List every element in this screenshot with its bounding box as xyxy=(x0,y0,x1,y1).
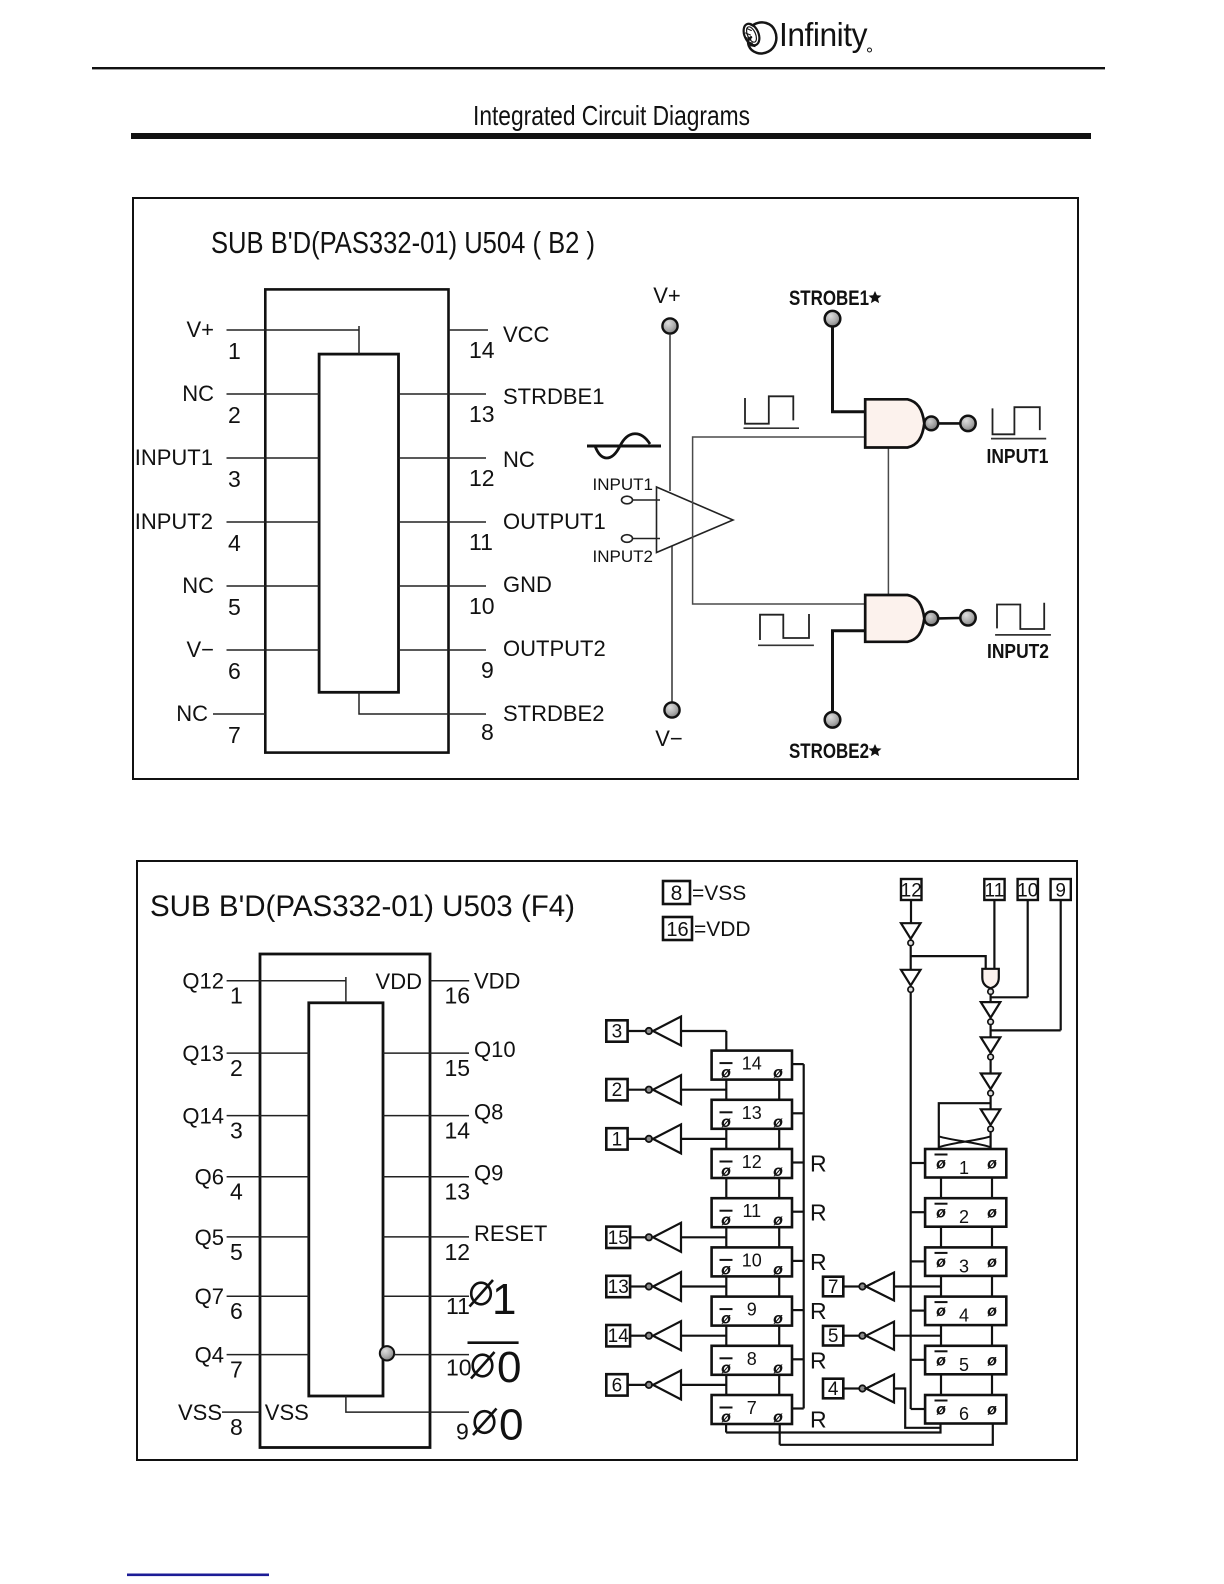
svg-text:12: 12 xyxy=(445,1239,471,1265)
terminal STROBE1 xyxy=(825,311,841,327)
svg-text:2: 2 xyxy=(959,1207,969,1227)
svg-text:10: 10 xyxy=(742,1250,762,1270)
wire loop to bowtie left xyxy=(939,1103,991,1149)
wire link FF14-FF13 a xyxy=(725,1080,727,1100)
svg-text:6: 6 xyxy=(230,1298,243,1324)
svg-text:STRDBE1: STRDBE1 xyxy=(503,384,604,409)
pin 10 wire PHI0bar xyxy=(394,1354,469,1356)
svg-text:14: 14 xyxy=(445,1118,471,1144)
pin label PHI1 xyxy=(470,1275,517,1324)
input sine wave xyxy=(587,434,661,458)
svg-text:STROBE2: STROBE2 xyxy=(789,740,869,763)
logo registered mark xyxy=(868,48,872,52)
op-amp U1 xyxy=(657,487,734,553)
node N2 xyxy=(908,987,914,993)
bowtie gate xyxy=(939,1136,991,1147)
svg-text:13: 13 xyxy=(742,1103,762,1123)
wire branch to pin10 line xyxy=(991,996,1028,998)
gate G3 xyxy=(982,969,999,988)
pin 9 wire OUTPUT2 xyxy=(399,649,487,651)
right FF column xyxy=(925,1149,1006,1424)
svg-text:ø: ø xyxy=(721,1409,731,1426)
svg-text:14: 14 xyxy=(608,1326,630,1347)
G2 output bubble xyxy=(924,612,938,626)
svg-text:ø: ø xyxy=(773,1114,783,1131)
wire pin10 down xyxy=(1027,900,1029,997)
svg-text:Q9: Q9 xyxy=(474,1161,503,1186)
svg-text:R: R xyxy=(810,1249,827,1275)
svg-text:7: 7 xyxy=(828,1277,839,1298)
wire link FF10-FF9 a xyxy=(725,1276,727,1296)
waveform in1 (low-high) xyxy=(745,396,793,423)
node N6 xyxy=(988,1126,994,1132)
boxed pin 12 xyxy=(901,879,922,900)
wire N4 out xyxy=(989,1060,991,1073)
svg-text:R: R xyxy=(810,1298,827,1324)
svg-text:Q8: Q8 xyxy=(474,1100,503,1125)
svg-text:Q14: Q14 xyxy=(182,1104,224,1129)
G2 output terminal xyxy=(960,610,975,625)
svg-text:12: 12 xyxy=(742,1152,762,1172)
NAND gate G2 xyxy=(865,595,924,642)
flip-flop FR1 xyxy=(925,1149,1006,1178)
R stub FF8 xyxy=(792,1358,804,1360)
svg-text:7: 7 xyxy=(747,1398,757,1418)
svg-text:5: 5 xyxy=(230,1239,243,1265)
flip-flop FR6 xyxy=(925,1395,1006,1424)
pin 8 wire STRDBE2 xyxy=(359,692,486,714)
pin 6 wire Q7 xyxy=(227,1295,309,1297)
svg-text:15: 15 xyxy=(608,1228,629,1249)
op-amp input1 terminal xyxy=(622,496,633,504)
svg-text:VDD: VDD xyxy=(474,969,520,994)
svg-text:ø: ø xyxy=(773,1360,783,1377)
wire link FF9-FF8 a xyxy=(725,1326,727,1346)
svg-text:VSS: VSS xyxy=(265,1400,309,1425)
R stub FF14 xyxy=(792,1063,804,1065)
svg-text:9: 9 xyxy=(456,1419,469,1445)
svg-text:Integrated Circuit Diagrams: Integrated Circuit Diagrams xyxy=(473,100,750,131)
wire N6 to bowtie xyxy=(989,1132,991,1149)
svg-text:VCC: VCC xyxy=(503,322,550,347)
op-amp input1 stub xyxy=(633,499,661,501)
R stub FF12 xyxy=(792,1161,804,1163)
svg-text:STRDBE2: STRDBE2 xyxy=(503,701,604,726)
svg-text:ø: ø xyxy=(936,1402,946,1419)
svg-text:R: R xyxy=(810,1151,827,1177)
Infinity logo glyph xyxy=(741,21,777,53)
wire pin9 down xyxy=(1060,900,1062,1030)
STROBE2 star xyxy=(869,744,882,756)
svg-text:11: 11 xyxy=(985,881,1005,902)
svg-text:3: 3 xyxy=(228,466,241,492)
svg-text:6: 6 xyxy=(612,1375,623,1396)
left pin inverters xyxy=(606,1017,726,1400)
pin 11 wire PHI1 xyxy=(383,1295,469,1297)
wire FF7 bottom a xyxy=(725,1424,727,1433)
inverter N1 xyxy=(901,923,921,939)
svg-text:13: 13 xyxy=(469,401,495,427)
clock bus phi-bar xyxy=(910,993,912,1409)
pin 1 wire Q12 xyxy=(227,977,346,1003)
svg-text:13: 13 xyxy=(608,1277,629,1298)
op-amp input2 terminal xyxy=(622,535,633,543)
BOX2 xyxy=(137,861,1077,1460)
waveform out2 (high-low) xyxy=(997,603,1044,629)
svg-text:11: 11 xyxy=(469,529,493,555)
svg-text:ø: ø xyxy=(721,1212,731,1229)
STROBE1 star xyxy=(869,291,882,303)
wire link FF10-FF9 b xyxy=(778,1276,780,1296)
node N5 xyxy=(988,1090,994,1096)
flip-flop FF9 xyxy=(712,1297,792,1328)
pin 13 wire Q9 xyxy=(383,1176,469,1178)
box2 frame xyxy=(137,861,1077,1460)
BOX1 xyxy=(133,198,1078,779)
clock stub FF6 xyxy=(911,1408,925,1410)
header rule xyxy=(92,67,1105,69)
svg-text:ø: ø xyxy=(773,1311,783,1328)
wire link FF11-FF10 b xyxy=(778,1227,780,1247)
svg-text:V+: V+ xyxy=(653,283,681,308)
flip-flop FF10 xyxy=(712,1247,792,1278)
terminal V+ xyxy=(662,318,677,333)
NAND gate G1 xyxy=(865,399,924,447)
svg-text:SUB B'D(PAS332-01) U503 (F4): SUB B'D(PAS332-01) U503 (F4) xyxy=(150,890,575,923)
pin 16 wire VDD xyxy=(430,980,469,982)
output inverter and pin 7 mid xyxy=(823,1273,941,1301)
svg-text:6: 6 xyxy=(959,1404,969,1424)
pin 13 wire STRDBE1 xyxy=(399,393,487,395)
inverter N3 xyxy=(981,1002,1001,1018)
pin 10 wire GND xyxy=(399,585,487,587)
R bus xyxy=(792,1064,827,1432)
clock stub FF2 xyxy=(911,1211,925,1213)
svg-text:Q5: Q5 xyxy=(195,1225,224,1250)
flip-flop FF12 xyxy=(712,1149,792,1180)
wire gate1 to gate2 xyxy=(887,448,889,596)
G1 output bubble xyxy=(924,417,938,431)
pin 4 wire Q6 xyxy=(227,1176,309,1178)
wire link FF12-FF11 b xyxy=(778,1178,780,1198)
wire link FR5-FR6 b xyxy=(991,1374,993,1395)
pin 14 wire VCC xyxy=(449,329,489,331)
wire link FR4-FR5 b xyxy=(991,1325,993,1346)
flip-flop FR4 xyxy=(925,1297,1006,1326)
svg-text:ø: ø xyxy=(987,1205,997,1222)
pin 5 wire Q5 xyxy=(227,1236,309,1238)
flip-flop FR2 xyxy=(925,1198,1006,1227)
wire FF7 bottom b xyxy=(779,1424,781,1445)
svg-text:ø: ø xyxy=(936,1303,946,1320)
svg-text:INPUT1: INPUT1 xyxy=(987,446,1049,468)
pin 7 wire NC xyxy=(213,713,265,715)
svg-text:OUTPUT1: OUTPUT1 xyxy=(503,509,606,534)
svg-text:ø: ø xyxy=(987,1352,997,1369)
pin 4 wire INPUT2 xyxy=(227,521,320,523)
terminal V- xyxy=(664,702,679,717)
wire op-amp outputs loop xyxy=(693,437,866,604)
output inverter and pin 6 xyxy=(606,1370,726,1399)
svg-text:NC: NC xyxy=(182,573,214,598)
R stub FF10 xyxy=(792,1260,804,1262)
svg-text:ø: ø xyxy=(773,1261,783,1278)
svg-text:9: 9 xyxy=(1055,881,1066,902)
svg-text:7: 7 xyxy=(230,1357,243,1383)
pin 9 wire PHI0 xyxy=(346,1396,469,1412)
svg-text:Q10: Q10 xyxy=(474,1037,516,1062)
inverter N4 xyxy=(981,1037,1001,1053)
footer blue line xyxy=(127,1574,269,1577)
R stub FF9 xyxy=(792,1309,804,1311)
svg-text:Infinity: Infinity xyxy=(779,16,868,53)
inverter N2 xyxy=(901,970,921,986)
svg-text:4: 4 xyxy=(828,1379,839,1400)
clock stub FF1 xyxy=(911,1162,925,1164)
flip-flop FF8 xyxy=(712,1346,792,1377)
pin 2 wire Q13 xyxy=(227,1052,309,1054)
wire link FF8-FF7 b xyxy=(778,1375,780,1395)
svg-text:9: 9 xyxy=(481,657,494,683)
wire N1 branch to gate xyxy=(911,956,986,969)
svg-text:4: 4 xyxy=(959,1306,969,1326)
svg-text:4: 4 xyxy=(230,1179,243,1205)
svg-text:=VSS: =VSS xyxy=(692,882,746,905)
wire link FR3-FR4 b xyxy=(991,1276,993,1297)
svg-text:ø: ø xyxy=(936,1352,946,1369)
IC U503 die xyxy=(309,1003,383,1396)
clock stub FF5 xyxy=(911,1359,925,1361)
pin 2 wire NC xyxy=(227,393,320,395)
pin 12 wire RESET xyxy=(383,1236,469,1238)
svg-text:Q6: Q6 xyxy=(195,1165,224,1190)
wire G3 out xyxy=(989,995,991,1002)
R stub FF7 xyxy=(792,1407,804,1409)
svg-text:Q7: Q7 xyxy=(195,1284,224,1309)
svg-text:15: 15 xyxy=(445,1055,471,1081)
svg-text:ø: ø xyxy=(987,1156,997,1173)
boxed pin 10 xyxy=(1018,879,1038,900)
flip-flop FR5 xyxy=(925,1346,1006,1375)
wire branch to pin9 line xyxy=(991,1029,1061,1031)
svg-text:Q12: Q12 xyxy=(182,969,224,994)
svg-text:OUTPUT2: OUTPUT2 xyxy=(503,636,606,661)
box1 frame xyxy=(133,198,1078,779)
pin 8 wire VSS xyxy=(222,1411,260,1413)
flip-flop FF13 xyxy=(712,1100,792,1131)
wire pin12 to inverter xyxy=(910,900,912,923)
G2 output wire xyxy=(939,617,961,620)
svg-text:GND: GND xyxy=(503,572,552,597)
svg-text:1: 1 xyxy=(959,1158,969,1178)
svg-text:14: 14 xyxy=(742,1054,762,1074)
R stub FF13 xyxy=(792,1112,804,1114)
wire link FF13-FF12 a xyxy=(725,1129,727,1149)
svg-text:NC: NC xyxy=(182,381,214,406)
clock stub FF3 xyxy=(911,1260,925,1262)
svg-text:11: 11 xyxy=(446,1293,470,1319)
output inverter and pin 13 xyxy=(606,1272,726,1301)
svg-text:SUB B'D(PAS332-01) U504 ( B2: SUB B'D(PAS332-01) U504 ( B2 ) xyxy=(211,225,595,260)
IC U503 outer package xyxy=(260,954,430,1448)
svg-text:8: 8 xyxy=(671,882,683,905)
inverter N6 xyxy=(981,1109,1001,1125)
svg-text:1: 1 xyxy=(612,1129,623,1150)
svg-text:INPUT2: INPUT2 xyxy=(135,509,213,534)
svg-text:0: 0 xyxy=(497,1343,521,1392)
wire V+ to op-amp xyxy=(669,334,671,491)
waveform out1 baseline xyxy=(991,438,1046,440)
svg-text:10: 10 xyxy=(1017,881,1038,902)
wire STROBE1 to gate1 xyxy=(833,327,867,412)
svg-text:ø: ø xyxy=(987,1254,997,1271)
svg-text:ø: ø xyxy=(936,1205,946,1222)
G1 output wire xyxy=(939,422,961,425)
svg-text:ø: ø xyxy=(721,1163,731,1180)
svg-text:1: 1 xyxy=(228,338,241,364)
svg-text:8: 8 xyxy=(481,719,494,745)
svg-text:NC: NC xyxy=(176,701,208,726)
svg-text:ø: ø xyxy=(773,1212,783,1229)
op-amp input2 stub xyxy=(633,538,661,540)
svg-text:ø: ø xyxy=(987,1303,997,1320)
svg-text:INPUT1: INPUT1 xyxy=(593,475,653,494)
svg-text:STROBE1: STROBE1 xyxy=(789,287,869,310)
wire N5 out xyxy=(989,1097,991,1110)
pin 5 wire NC xyxy=(227,585,320,587)
svg-text:ø: ø xyxy=(773,1065,783,1082)
wire link FR1-FR2 b xyxy=(991,1178,993,1199)
waveform in1 baseline xyxy=(744,427,800,429)
svg-text:5: 5 xyxy=(959,1355,969,1375)
wire STROBE2 to gate2 xyxy=(833,631,867,712)
svg-text:3: 3 xyxy=(230,1118,243,1144)
pin label PHI0bar xyxy=(471,1343,521,1392)
waveform out1 (low-high) xyxy=(993,407,1040,434)
wire op-amp to V- xyxy=(671,545,673,702)
clock stub FF4 xyxy=(911,1309,925,1311)
bottom feedback wires xyxy=(726,1424,993,1445)
svg-text:8: 8 xyxy=(230,1414,243,1440)
R stub FF11 xyxy=(792,1211,804,1213)
flip-flop FF7 xyxy=(712,1395,792,1426)
svg-text:ø: ø xyxy=(773,1163,783,1180)
svg-text:R: R xyxy=(810,1407,827,1433)
svg-text:8: 8 xyxy=(747,1349,757,1369)
boxed pin 11 xyxy=(984,879,1004,900)
title thick rule xyxy=(131,133,1091,139)
pin 11 wire OUTPUT1 xyxy=(399,521,487,523)
pin 7 wire Q4 xyxy=(227,1354,309,1356)
svg-text:10: 10 xyxy=(469,593,495,619)
svg-text:9: 9 xyxy=(747,1300,757,1320)
svg-text:RESET: RESET xyxy=(474,1221,547,1246)
flip-flop FF14 xyxy=(712,1051,792,1082)
wire link FF8-FF7 a xyxy=(725,1375,727,1395)
svg-text:5: 5 xyxy=(228,594,241,620)
svg-text:ø: ø xyxy=(936,1254,946,1271)
wire link FR1-FR2 a xyxy=(940,1178,942,1199)
wire feedback B xyxy=(780,1424,993,1445)
pin 15 wire Q10 xyxy=(383,1052,469,1054)
svg-text:VDD: VDD xyxy=(376,969,422,994)
svg-text:V−: V− xyxy=(186,637,214,662)
svg-text:1: 1 xyxy=(492,1275,516,1324)
pin 3 wire INPUT1 xyxy=(227,457,320,459)
mid pin inverters xyxy=(823,1273,941,1428)
output inverter and pin 1 xyxy=(606,1124,726,1153)
wire link FF14-FF13 b xyxy=(778,1080,780,1100)
pin label PHI0bar overline xyxy=(468,1341,519,1344)
svg-text:3: 3 xyxy=(612,1022,623,1043)
waveform out2 baseline xyxy=(995,634,1051,636)
wire link FF9-FF8 b xyxy=(778,1326,780,1346)
svg-text:16: 16 xyxy=(445,983,471,1009)
svg-text:11: 11 xyxy=(742,1201,761,1221)
svg-text:Q4: Q4 xyxy=(195,1343,224,1368)
svg-text:10: 10 xyxy=(446,1355,472,1381)
pin 14 wire Q8 xyxy=(383,1115,469,1117)
R reset bus xyxy=(803,1064,805,1408)
IC U504 outer package xyxy=(265,289,448,752)
wire link FR2-FR3 b xyxy=(991,1227,993,1248)
svg-text:12: 12 xyxy=(901,881,922,902)
boxed pin 9 xyxy=(1051,879,1071,900)
output inverter and pin 15 xyxy=(606,1223,726,1252)
wire link FF11-FF10 a xyxy=(725,1227,727,1247)
output inverter and pin 3 xyxy=(606,1017,726,1046)
pin 12 wire NC xyxy=(399,457,487,459)
HEADER xyxy=(92,16,1105,139)
svg-text:16: 16 xyxy=(666,919,688,941)
svg-text:5: 5 xyxy=(828,1326,839,1347)
output inverter and pin 14 xyxy=(606,1321,726,1350)
svg-text:ø: ø xyxy=(721,1065,731,1082)
waveform in2 (high-low) xyxy=(760,614,809,640)
svg-text:V+: V+ xyxy=(186,317,214,342)
pin 10 node dot xyxy=(380,1346,394,1360)
svg-text:4: 4 xyxy=(228,530,241,556)
pin 3 wire Q14 xyxy=(227,1115,309,1117)
wire link FR4-FR5 a xyxy=(940,1325,942,1346)
output inverter and pin 4 mid xyxy=(823,1375,941,1428)
svg-text:12: 12 xyxy=(469,465,495,491)
wire N1 out xyxy=(910,946,912,970)
svg-text:3: 3 xyxy=(959,1256,969,1276)
pin label PHI0 xyxy=(473,1401,523,1450)
wire link FF12-FF11 a xyxy=(725,1178,727,1198)
svg-text:INPUT2: INPUT2 xyxy=(593,547,653,566)
inverter N5 xyxy=(981,1074,1001,1090)
svg-text:ø: ø xyxy=(936,1156,946,1173)
svg-text:ø: ø xyxy=(721,1114,731,1131)
svg-text:0: 0 xyxy=(499,1401,523,1450)
pin 6 wire V- xyxy=(227,649,320,651)
output inverter and pin 5 mid xyxy=(823,1322,941,1350)
node N3 xyxy=(988,1019,994,1025)
wire link FR5-FR6 a xyxy=(940,1374,942,1395)
terminal STROBE2 xyxy=(825,712,841,728)
svg-text:Q13: Q13 xyxy=(182,1041,224,1066)
svg-text:R: R xyxy=(810,1347,827,1373)
pin 1 wire V+ xyxy=(227,326,360,354)
footer blue rule xyxy=(127,1574,269,1577)
wire link FR2-FR3 a xyxy=(940,1227,942,1248)
wire link above FF14 xyxy=(725,1031,727,1051)
wire link FF13-FF12 b xyxy=(778,1129,780,1149)
svg-text:V−: V− xyxy=(655,726,683,751)
legend pin16 box xyxy=(663,917,692,940)
